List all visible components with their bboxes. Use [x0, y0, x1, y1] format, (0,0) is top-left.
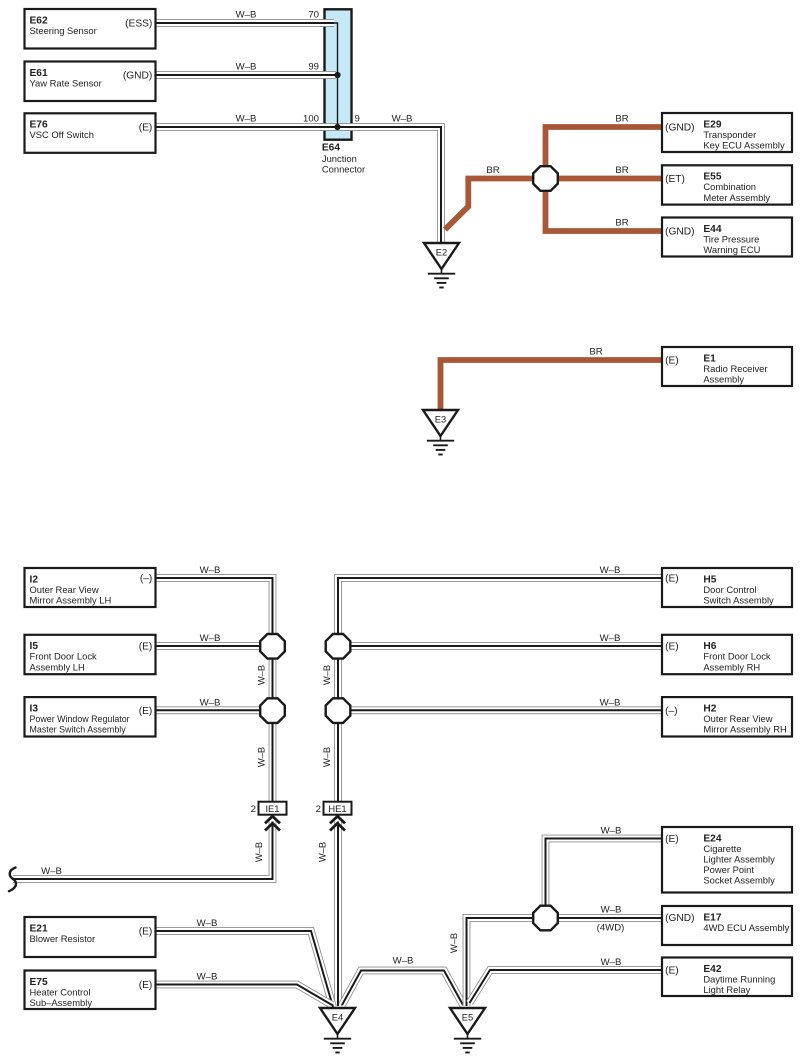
- svg-text:E5: E5: [462, 1012, 473, 1023]
- svg-text:W–B: W–B: [448, 933, 459, 953]
- svg-text:Power Window Regulator: Power Window Regulator: [30, 714, 130, 724]
- svg-text:BR: BR: [615, 114, 628, 125]
- svg-text:W–B: W–B: [601, 905, 622, 916]
- svg-text:Mirror Assembly RH: Mirror Assembly RH: [703, 724, 786, 735]
- svg-text:(E): (E): [665, 356, 679, 367]
- svg-text:HE1: HE1: [328, 803, 346, 814]
- svg-text:W–B: W–B: [600, 697, 621, 708]
- svg-text:W–B: W–B: [601, 826, 622, 837]
- svg-text:Light Relay: Light Relay: [703, 984, 750, 995]
- svg-text:(E): (E): [665, 834, 679, 845]
- svg-text:Master Switch Assembly: Master Switch Assembly: [30, 725, 127, 735]
- svg-text:(E): (E): [139, 927, 153, 938]
- svg-text:Outer Rear View: Outer Rear View: [30, 584, 99, 595]
- svg-text:(ESS): (ESS): [125, 19, 152, 30]
- svg-text:W–B: W–B: [200, 633, 221, 644]
- svg-text:Yaw Rate Sensor: Yaw Rate Sensor: [30, 77, 102, 88]
- svg-text:W–B: W–B: [253, 842, 264, 862]
- svg-text:(GND): (GND): [665, 227, 694, 238]
- svg-text:E3: E3: [435, 414, 446, 425]
- svg-text:100: 100: [303, 114, 319, 125]
- svg-text:9: 9: [355, 114, 360, 125]
- svg-text:W–B: W–B: [256, 665, 267, 685]
- svg-text:BR: BR: [486, 165, 499, 176]
- svg-text:W–B: W–B: [317, 842, 328, 862]
- svg-text:(GND): (GND): [665, 913, 694, 924]
- svg-text:Sub–Assembly: Sub–Assembly: [30, 997, 93, 1008]
- svg-text:Meter Assembly: Meter Assembly: [703, 192, 770, 203]
- svg-text:Lighter Assembly: Lighter Assembly: [703, 854, 775, 865]
- svg-text:Key ECU Assembly: Key ECU Assembly: [703, 140, 785, 151]
- svg-text:BR: BR: [615, 165, 628, 176]
- svg-text:(E): (E): [665, 966, 679, 977]
- svg-text:Assembly LH: Assembly LH: [30, 661, 85, 672]
- svg-text:Steering Sensor: Steering Sensor: [30, 25, 97, 36]
- svg-text:(GND): (GND): [665, 123, 694, 134]
- svg-text:(–): (–): [665, 706, 677, 717]
- svg-text:I3: I3: [30, 703, 39, 714]
- svg-text:2: 2: [251, 804, 256, 815]
- svg-text:Tire Pressure: Tire Pressure: [703, 233, 759, 244]
- svg-text:Cigarette: Cigarette: [703, 843, 741, 854]
- svg-text:W–B: W–B: [236, 10, 257, 21]
- svg-text:W–B: W–B: [236, 114, 257, 125]
- svg-text:Assembly: Assembly: [703, 374, 744, 385]
- svg-text:(4WD): (4WD): [597, 923, 625, 934]
- svg-text:(E): (E): [139, 642, 153, 653]
- svg-text:W–B: W–B: [256, 747, 267, 767]
- svg-text:W–B: W–B: [236, 62, 257, 73]
- svg-text:Power Point: Power Point: [703, 864, 754, 875]
- svg-text:W–B: W–B: [321, 665, 332, 685]
- svg-text:W–B: W–B: [321, 747, 332, 767]
- svg-text:(ET): (ET): [665, 174, 685, 185]
- svg-text:E4: E4: [332, 1012, 343, 1023]
- svg-text:2: 2: [316, 804, 321, 815]
- svg-text:4WD ECU Assembly: 4WD ECU Assembly: [703, 922, 789, 933]
- svg-text:IE1: IE1: [265, 803, 279, 814]
- svg-text:Warning ECU: Warning ECU: [703, 244, 760, 255]
- svg-text:Radio Receiver: Radio Receiver: [703, 363, 767, 374]
- svg-text:Front Door Lock: Front Door Lock: [30, 651, 98, 662]
- svg-text:Heater Control: Heater Control: [30, 986, 91, 997]
- svg-text:W–B: W–B: [393, 956, 414, 967]
- svg-text:W–B: W–B: [600, 565, 621, 576]
- svg-text:Transponder: Transponder: [703, 129, 756, 140]
- svg-text:W–B: W–B: [601, 957, 622, 968]
- svg-text:E64: E64: [322, 142, 340, 153]
- svg-text:Assembly RH: Assembly RH: [703, 661, 760, 672]
- svg-text:E2: E2: [436, 247, 447, 258]
- svg-text:W–B: W–B: [392, 114, 413, 125]
- svg-text:W–B: W–B: [200, 565, 221, 576]
- svg-text:BR: BR: [589, 347, 602, 358]
- svg-text:W–B: W–B: [41, 866, 62, 877]
- svg-text:Outer Rear View: Outer Rear View: [703, 713, 772, 724]
- svg-text:W–B: W–B: [197, 918, 218, 929]
- svg-text:W–B: W–B: [200, 697, 221, 708]
- svg-text:Mirror Assembly LH: Mirror Assembly LH: [30, 595, 112, 606]
- svg-text:Blower Resistor: Blower Resistor: [30, 933, 96, 944]
- svg-text:(GND): (GND): [123, 71, 152, 82]
- svg-text:Front Door Lock: Front Door Lock: [703, 651, 771, 662]
- svg-text:Junction: Junction: [322, 153, 357, 164]
- svg-text:Combination: Combination: [703, 181, 756, 192]
- svg-text:Door Control: Door Control: [703, 584, 756, 595]
- svg-text:Socket Assembly: Socket Assembly: [703, 875, 775, 886]
- svg-text:W–B: W–B: [197, 972, 218, 983]
- svg-text:VSC Off Switch: VSC Off Switch: [30, 129, 94, 140]
- svg-text:(E): (E): [665, 574, 679, 585]
- svg-text:Daytime Running: Daytime Running: [703, 973, 775, 984]
- svg-text:(E): (E): [139, 980, 153, 991]
- svg-text:99: 99: [308, 62, 319, 73]
- svg-text:Connector: Connector: [322, 164, 365, 175]
- svg-text:W–B: W–B: [600, 633, 621, 644]
- svg-text:Switch Assembly: Switch Assembly: [703, 595, 774, 606]
- svg-text:(E): (E): [139, 706, 153, 717]
- svg-text:(E): (E): [139, 123, 153, 134]
- svg-text:(–): (–): [140, 574, 152, 585]
- svg-text:70: 70: [308, 10, 319, 21]
- svg-text:BR: BR: [615, 218, 628, 229]
- svg-text:(E): (E): [665, 642, 679, 653]
